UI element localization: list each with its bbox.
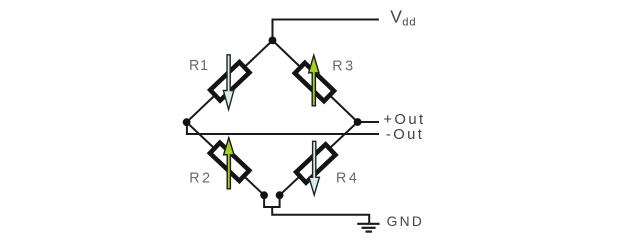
resistor R3 body <box>295 63 334 101</box>
svg-text:V: V <box>390 7 402 27</box>
arrow R4 (pale blue, down) <box>309 141 319 195</box>
node right (junction dot) <box>354 118 362 126</box>
svg-text:-Out: -Out <box>386 127 424 143</box>
wire bottom node jog to ground <box>264 195 280 207</box>
wire ground feed <box>272 207 369 223</box>
wire bridge arm left-node to top-node (R1 arm) <box>187 40 273 122</box>
wire -Out (from left node, down then right) <box>187 122 379 134</box>
wire +Out <box>358 121 379 123</box>
arrow R2 (green, up) <box>224 138 234 189</box>
svg-text:+Out: +Out <box>383 112 425 128</box>
node left (junction dot) <box>183 118 191 126</box>
svg-text:R3: R3 <box>332 58 355 74</box>
arrow R3 (green, up) <box>309 55 319 106</box>
ground symbol <box>357 224 379 232</box>
svg-text:GND: GND <box>387 214 425 229</box>
wire bridge arm top-node to right-node (R3 arm) <box>273 40 358 122</box>
resistor R2 body <box>210 143 249 181</box>
svg-text:dd: dd <box>402 17 416 29</box>
wire Vdd supply (top node up and right to Vdd) <box>273 20 379 41</box>
node bottom-right (junction dot) <box>276 191 284 199</box>
arrow R1 (pale blue, down) <box>223 55 233 110</box>
resistor R1 body <box>210 62 249 100</box>
resistor R4 body <box>296 144 335 182</box>
node bottom-left (junction dot) <box>260 191 268 199</box>
svg-text:R1: R1 <box>189 58 209 74</box>
svg-text:R2: R2 <box>189 171 212 187</box>
node top (junction dot) <box>269 37 277 45</box>
wire bridge arm left-node to bottom-left-node (R2 arm) <box>187 122 265 195</box>
svg-text:R4: R4 <box>336 171 359 187</box>
wire bridge arm right-node to bottom-right-node (R4 arm) <box>280 122 358 195</box>
